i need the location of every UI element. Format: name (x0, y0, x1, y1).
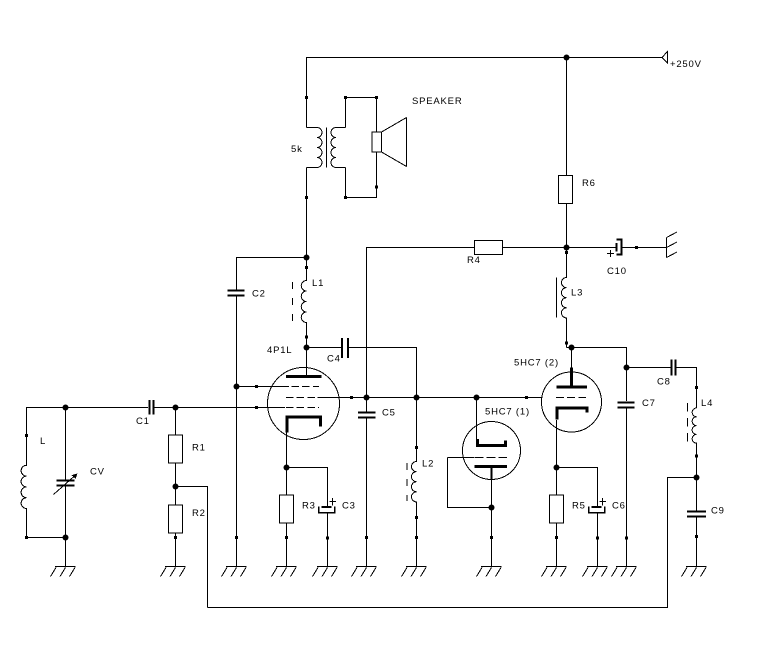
tube U2 cathode lead (476, 398, 478, 440)
node R1/R2 junction dot (173, 484, 179, 490)
node top bus / R6 junction dot (564, 55, 570, 61)
pin square C7 ground lead (625, 537, 628, 540)
capacitor C5 (358, 398, 396, 567)
wire grid1 to C2 node (237, 386, 290, 388)
capacitor C3 polarized (319, 498, 356, 567)
inductor L2 (407, 398, 434, 567)
pin square L1 top (305, 266, 308, 269)
resistor R6 (559, 58, 596, 248)
svg-text:R1: R1 (192, 443, 206, 454)
svg-text:C10: C10 (607, 266, 627, 277)
node grid bus / U2 cathode junction dot (474, 395, 480, 401)
pin square L2 ground lead (415, 536, 418, 539)
tube U3 cathode lead (556, 420, 558, 468)
node C1/R1 junction dot (173, 405, 179, 411)
tube U3 grid dashes (556, 397, 587, 399)
svg-text:R2: R2 (192, 508, 206, 519)
wire grid2 bus to tube U3 (318, 397, 542, 399)
pin square L4 bottom (695, 455, 698, 458)
pin square U3 grid left (525, 396, 528, 399)
tube U1 anode lead (306, 348, 308, 376)
pin square C9 ground lead (695, 535, 698, 538)
ground R5 (542, 567, 567, 577)
wire tank bottom (27, 537, 66, 539)
node cathode U3 junction dot (554, 465, 560, 471)
pin square speaker wire top left (344, 96, 347, 99)
svg-text:CV: CV (90, 467, 105, 478)
svg-text:L2: L2 (422, 459, 434, 470)
pin square transformer primary bottom (305, 196, 308, 199)
capacitor C10 polarized (567, 240, 667, 278)
svg-text:C1: C1 (136, 416, 150, 427)
tube U3 anode plate (557, 386, 588, 389)
tube U1 grid 2 dashes (286, 397, 315, 399)
svg-text:C9: C9 (711, 506, 725, 517)
svg-text:R4: R4 (467, 255, 481, 266)
svg-text:5k: 5k (291, 144, 303, 155)
variable capacitor CV (54, 408, 105, 538)
wire C2 bottom down to grid node and ground (236, 297, 238, 567)
ground L2 (402, 567, 427, 577)
tube U1 anode plate (286, 375, 322, 378)
resistor R4 (367, 241, 567, 398)
pin square speaker wire top right (375, 96, 378, 99)
pin square speaker bottom lead (375, 186, 378, 189)
wire C4 right to L2 drop (349, 348, 417, 398)
svg-text:+250V: +250V (670, 59, 702, 70)
resistor R2 (169, 487, 206, 567)
svg-text:L3: L3 (571, 288, 583, 299)
tube U3 anode lead (571, 348, 573, 369)
capacitor C6 polarized (589, 498, 626, 567)
wire bottom feedback run (208, 478, 697, 608)
wire anode node to C4 (307, 347, 342, 349)
wire U2 grid to plate loop (448, 458, 492, 508)
node grid bus / C5 junction dot (364, 395, 370, 401)
pin square R2 ground lead (174, 536, 177, 539)
pin square U1 grid1 left (255, 385, 258, 388)
wire cathode U3 node to C6 (557, 468, 598, 508)
wire U2 plate node to ground (491, 508, 493, 567)
pin square L antenna top (25, 434, 28, 437)
ground C6 (583, 567, 608, 577)
svg-text:R3: R3 (302, 501, 316, 512)
ground R3 (272, 567, 297, 577)
svg-text:5HC7 (2): 5HC7 (2) (514, 358, 559, 369)
svg-text:SPEAKER: SPEAKER (412, 96, 462, 107)
pin square L2 bottom (415, 516, 418, 519)
pin square C10 right lead (635, 246, 638, 249)
node A junction dot (primary / C2 / L1) (304, 255, 310, 261)
node tank top junction dot (63, 405, 69, 411)
tube U2 5HC7 (1) envelope (463, 422, 521, 480)
capacitor C1 (136, 400, 154, 427)
+250V power terminal (662, 52, 702, 71)
wire L3 bottom to tube U3 anode node (567, 347, 572, 349)
wire anode U3 node to C7/C8 corner (572, 348, 627, 368)
wire tank bottom to ground (65, 538, 67, 567)
svg-text:L1: L1 (312, 278, 324, 289)
node R6/R4/C10/L3 junction dot (564, 245, 570, 251)
inductor L antenna coil (21, 408, 46, 538)
pin square L3 bottom (565, 342, 568, 345)
tube U1 grid 3 dashes (286, 407, 319, 409)
pin square L2 top (415, 446, 418, 449)
chassis ground symbol (667, 232, 678, 258)
wire transformer primary bottom down to node A (306, 168, 308, 258)
capacitor C2 (228, 289, 266, 300)
pin square U2 ground lead (490, 536, 493, 539)
pin square R5 ground lead (555, 536, 558, 539)
op tube U1 4P1L envelope (268, 368, 340, 440)
wire C1 right to grid3 of U1 (155, 407, 286, 409)
ground tank (51, 567, 76, 577)
ground C9 (682, 567, 707, 577)
resistor R5 (550, 468, 586, 567)
tube U1 cathode (287, 417, 321, 433)
transformer T1 primary winding 5k (307, 128, 323, 168)
node grid bus / L2 junction dot (414, 395, 420, 401)
svg-text:R5: R5 (572, 501, 586, 512)
capacitor C8 (627, 360, 697, 409)
wire transformer secondary bottom to speaker (346, 152, 377, 198)
pin square transformer primary top (305, 96, 308, 99)
wire node A left to C2 (237, 258, 307, 290)
tube U3 cathode (557, 408, 587, 420)
node L4/C9/feedback junction dot (694, 475, 700, 481)
transformer T1 core (326, 128, 328, 168)
wire cathode node to C3 (287, 468, 328, 508)
svg-text:C7: C7 (642, 398, 656, 409)
resistor R1 (169, 408, 206, 487)
node anode U3 junction dot (569, 345, 575, 351)
svg-text:5HC7 (1): 5HC7 (1) (485, 407, 530, 418)
ground C2 (222, 567, 247, 577)
tube U3 5HC7 (2) envelope (542, 372, 602, 432)
ground C5 (352, 567, 377, 577)
tube U2 anode lead (491, 467, 493, 481)
pin square L3 top (565, 251, 568, 254)
ground R2 (161, 567, 186, 577)
pin square U1 grid3 left (255, 406, 258, 409)
svg-text:4P1L: 4P1L (267, 345, 292, 356)
ground C7 (612, 567, 637, 577)
capacitor C9 (687, 478, 725, 567)
pin square C3 ground lead (326, 537, 329, 540)
inductor L4 (688, 398, 714, 478)
capacitor C4 (327, 338, 348, 365)
pin square R3 ground lead (285, 536, 288, 539)
svg-text:C6: C6 (612, 501, 626, 512)
pin square L antenna bottom (25, 536, 28, 539)
node cathode U1 junction dot (284, 465, 290, 471)
ground U2 (477, 567, 502, 577)
tube U1 grid 1 dashes (292, 386, 320, 388)
node grid1/C2 junction dot (234, 384, 240, 390)
wire transformer secondary top to speaker (346, 98, 377, 133)
svg-text:C8: C8 (657, 377, 671, 388)
transformer T1 secondary winding (331, 128, 345, 168)
svg-text:L: L (40, 436, 46, 447)
ground C3 (313, 567, 338, 577)
svg-text:L4: L4 (701, 398, 713, 409)
tube U1 cathode lead (286, 433, 288, 468)
capacitor C7 (618, 368, 656, 567)
node C7/C8 junction dot (624, 365, 630, 371)
pin square C6 ground lead (596, 537, 599, 540)
svg-text:C4: C4 (327, 354, 341, 365)
pin square L4 top (695, 386, 698, 389)
tube U2 anode plate (475, 465, 508, 468)
inductor L3 (557, 248, 584, 348)
wire R1/R2 node to bottom feedback run (176, 487, 208, 608)
pin square L1 bottom (305, 336, 308, 339)
svg-text:C3: C3 (342, 501, 356, 512)
node anode 4P1L junction dot (304, 345, 310, 351)
wire tank node to C1 (27, 408, 149, 410)
pin square speaker wire bottom left (344, 196, 347, 199)
wire top supply bus y=57 (307, 58, 663, 128)
resistor R3 (280, 468, 316, 567)
svg-text:C5: C5 (382, 408, 396, 419)
pin square U1 grid2 right (350, 396, 353, 399)
tube U2 cathode (478, 439, 506, 446)
speaker LS1 (372, 118, 407, 167)
pin square C2 ground lead (235, 536, 238, 539)
tube U2 grid dashes (475, 457, 508, 459)
svg-text:R6: R6 (582, 178, 596, 189)
node tank bottom junction dot (63, 535, 69, 541)
pin square C5 ground lead (365, 536, 368, 539)
svg-text:C2: C2 (252, 289, 266, 300)
node U2 plate/grid junction dot (489, 505, 495, 511)
inductor L1 (293, 258, 325, 348)
